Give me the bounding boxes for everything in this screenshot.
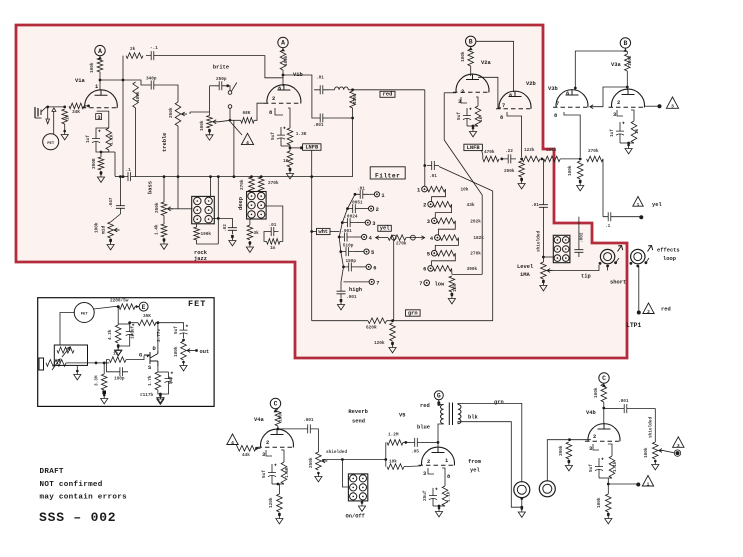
svg-text:Filter: Filter (375, 172, 400, 179)
wire deep loop 2 (264, 232, 267, 242)
wire rock to cap (212, 218, 232, 224)
ground 4.2k (115, 347, 122, 356)
dot V4a gnd (278, 513, 281, 516)
wire lower gang out (66, 362, 96, 364)
resistor 100k slope (133, 82, 139, 108)
node A supply 2 (278, 37, 288, 47)
svg-text:out: out (200, 349, 210, 355)
resistor 1M input (62, 109, 68, 124)
wire resistor to V3a plate (626, 71, 628, 90)
svg-text:120k: 120k (269, 497, 274, 508)
wire volume node drop (233, 120, 235, 176)
label box grn 1 (406, 310, 421, 316)
wire V3a cath join (620, 142, 634, 144)
dot plate node V5 (437, 441, 440, 444)
capacitor 5uF V2a (463, 108, 471, 126)
rail junction (391, 319, 394, 322)
capacitor .01 send (539, 200, 548, 212)
capacitor .22 (503, 154, 516, 163)
cathode bracket V1b (275, 108, 283, 115)
cathode junction V1a (100, 151, 103, 154)
dot above ground V1b (289, 168, 292, 171)
triode V5 (422, 447, 455, 465)
svg-text:V2b: V2b (526, 81, 536, 87)
ground V2a (469, 128, 476, 137)
svg-text:Reverb: Reverb (348, 409, 367, 415)
wire fet supply (114, 306, 119, 308)
wire jack to node (42, 107, 48, 112)
wire C2 down (603, 383, 605, 384)
svg-text:270k: 270k (240, 179, 245, 190)
wire cathode join (96, 150, 109, 152)
ladder inner vertical (481, 195, 483, 274)
svg-text:G: G (139, 353, 142, 359)
svg-text:2: 2 (272, 96, 275, 102)
svg-text:1uf: 1uf (610, 129, 615, 137)
svg-text:blk: blk (468, 415, 478, 421)
fan bus dot 3 (341, 221, 344, 224)
svg-text:3: 3 (677, 443, 680, 449)
svg-text:yel: yel (380, 226, 390, 232)
svg-text:390R: 390R (92, 158, 97, 169)
ground source (157, 396, 164, 405)
wire 270k down (602, 159, 604, 217)
svg-text:270k: 270k (396, 242, 407, 247)
FET input jack (39, 358, 44, 370)
capacitor .05 V5 (410, 438, 422, 447)
switch brite circle 1 (228, 91, 232, 95)
svg-text:34K: 34K (72, 110, 80, 115)
dot 200k (520, 178, 523, 181)
LTP dot (637, 311, 641, 315)
label box yel (378, 225, 392, 231)
bus dot treble (177, 175, 180, 178)
potentiometer 250k reverb (316, 452, 322, 470)
bus dot mid cap (119, 175, 122, 178)
cathode lead V1a (97, 111, 109, 128)
wire .001 join (328, 117, 353, 119)
capacitor 5uF V4a (268, 464, 276, 484)
wire resistor to V4a (277, 426, 279, 430)
ground input 1M (61, 131, 68, 140)
ladder hook 6 (432, 253, 456, 265)
V3a out dot (658, 104, 662, 108)
svg-text:1m: 1m (270, 246, 276, 251)
wire to V4a grid (256, 447, 261, 449)
svg-text:390k: 390k (559, 445, 564, 456)
svg-text:.001: .001 (618, 399, 629, 404)
wire red bus (353, 89, 425, 91)
ground dot 390k (568, 461, 571, 464)
yel pot circle 1 (391, 235, 396, 240)
svg-text:1MA: 1MA (520, 272, 530, 278)
wire wiper to rock box (178, 208, 192, 210)
wire jack1 lug down (607, 266, 609, 271)
ground dot level pot (542, 281, 545, 284)
svg-text:4: 4 (246, 140, 249, 146)
switch rock-jazz (192, 196, 215, 223)
svg-text:-.1: -.1 (150, 46, 158, 51)
wire node to 1M (48, 106, 65, 108)
svg-text:100k: 100k (628, 55, 633, 66)
wire V5 plate up (438, 424, 444, 448)
wire bass pot to 1.4k (163, 216, 165, 225)
svg-text:2: 2 (266, 440, 269, 446)
node C supply (270, 398, 280, 408)
svg-text:1: 1 (95, 84, 98, 90)
wire V3a out (645, 105, 658, 107)
node 1M dot (63, 106, 66, 109)
label box LNFB 2 (464, 144, 483, 150)
wire switch down (229, 108, 231, 120)
wire fb to shielded (542, 159, 544, 200)
ground 390k (565, 462, 572, 471)
svg-text:.1: .1 (605, 224, 611, 229)
svg-text:grn: grn (494, 400, 504, 406)
fan bus dot 4 (338, 236, 341, 239)
wire plate V1b right (283, 75, 312, 90)
wire reverb wiper bus (322, 459, 386, 461)
wire V4a cath down (278, 484, 280, 494)
jack effects return (631, 249, 645, 263)
svg-text:1.2M: 1.2M (388, 433, 399, 438)
dot volume node drop (233, 175, 236, 178)
svg-text:G: G (437, 393, 441, 400)
svg-text:44k: 44k (242, 453, 250, 458)
svg-text:may contain errors: may contain errors (40, 494, 128, 502)
rotary position 6 terminal (428, 266, 434, 272)
wire fet to resistor (94, 307, 114, 309)
ladder hook 4 (438, 221, 455, 235)
svg-text:6: 6 (373, 265, 376, 271)
svg-text:270k: 270k (268, 181, 279, 186)
triangle ref 2 red (643, 303, 654, 314)
ground 12k (448, 295, 455, 304)
svg-text:3.3M: 3.3M (95, 375, 100, 386)
triangle ref 3 top (666, 97, 678, 108)
junction grid V1a (87, 105, 90, 108)
resistor 270k ladder (437, 250, 455, 256)
label box red (380, 91, 395, 97)
svg-text:250k: 250k (309, 457, 314, 468)
svg-text:jazz: jazz (194, 256, 207, 262)
ground arrow input (46, 119, 50, 124)
ground dot V4a (278, 514, 281, 517)
wire cap to terminal 3 (355, 222, 365, 224)
svg-text:8: 8 (269, 110, 272, 116)
resistor 1k V2a (475, 106, 481, 126)
resistor 34K grid stopper (69, 103, 84, 109)
svg-text:.01: .01 (429, 174, 437, 179)
bass bus wire left (115, 176, 123, 178)
svg-text:7: 7 (556, 101, 559, 107)
inductor (335, 87, 349, 90)
svg-text:1: 1 (647, 482, 650, 488)
wire A2 down (282, 47, 284, 50)
dot 120k (391, 342, 394, 345)
svg-text:.001: .001 (313, 123, 324, 128)
wire V4b cath join (599, 477, 612, 479)
highlight region outline (16, 25, 627, 358)
input node dot (46, 106, 49, 109)
dot plate drop bottom (122, 175, 125, 178)
dot 1.2M cap (404, 441, 407, 444)
dot out cap (182, 339, 185, 342)
cathode junction V2a (472, 125, 475, 128)
svg-text:NOT confirmed: NOT confirmed (40, 481, 103, 489)
potentiometer mid wiper (114, 229, 120, 231)
dot bypass cross (217, 217, 220, 220)
svg-text:470k: 470k (353, 93, 358, 104)
svg-text:35K: 35K (143, 314, 151, 319)
ground bass (160, 241, 167, 250)
triangle ref 1 V4b (642, 476, 653, 487)
svg-text:1: 1 (637, 202, 640, 208)
wire plate bus V1a (100, 79, 136, 81)
cathode lead V1b (288, 108, 290, 128)
wire cathode to bus tap (101, 151, 115, 153)
switch deep (247, 192, 267, 220)
triode V1a (85, 90, 118, 108)
yel point dot (639, 215, 643, 219)
plate dot V4a (277, 428, 280, 431)
svg-text:SSS – 002: SSS – 002 (39, 510, 116, 525)
svg-text:1: 1 (417, 187, 420, 193)
node E supply (139, 302, 148, 311)
wire cap to terminal 1 (368, 193, 374, 195)
grid arrow V3b (590, 105, 593, 109)
svg-text:180k: 180k (546, 148, 557, 153)
wire plate jog (136, 80, 145, 85)
svg-text:.02: .02 (223, 224, 228, 232)
wire plate to cap V4b (604, 408, 618, 410)
ground dot 100k shunt (579, 181, 582, 184)
jack1 arrow wire (616, 258, 619, 263)
svg-text:190k: 190k (201, 232, 212, 237)
capacitor 160p (114, 367, 128, 376)
svg-text:1.3K: 1.3K (296, 132, 307, 137)
capacitor .002 loop (574, 245, 583, 257)
triangle ref 1 yel (633, 197, 643, 207)
capacitor .0051 filter (348, 204, 361, 213)
svg-text:.0024: .0024 (344, 215, 358, 220)
svg-text:1: 1 (381, 193, 384, 199)
gang upper arrow (62, 347, 70, 357)
svg-text:A: A (98, 48, 102, 55)
resistor 390k (566, 442, 572, 459)
cathode V3b (564, 112, 580, 157)
ground jack reverb (518, 509, 525, 518)
transistor JFET (144, 352, 158, 366)
wire V5 cath join (433, 505, 445, 507)
ground level pot (540, 282, 547, 291)
svg-text:FET: FET (188, 299, 206, 309)
ground dot jack reverb (521, 507, 524, 510)
svg-text:470k: 470k (484, 150, 495, 155)
svg-text:270k: 270k (470, 252, 481, 257)
ground V1a cathode (97, 174, 104, 183)
wire to V2a plate (470, 66, 472, 76)
LNFB wire pad (300, 146, 303, 149)
wire source join (158, 388, 169, 394)
wire V4b grid stub (588, 439, 591, 441)
svg-text:.0051: .0051 (350, 201, 364, 206)
ground on-off (358, 503, 365, 512)
triode V1b (267, 85, 301, 104)
svg-text:grn: grn (408, 311, 418, 317)
dot wht tap (310, 230, 313, 233)
dot jack reverb gnd (520, 506, 523, 509)
brite node dot (226, 84, 229, 87)
ground dot 12k (451, 294, 454, 297)
wire to 390R (100, 152, 102, 157)
wire cap to pot (316, 429, 318, 452)
capacitor .01 filter top (427, 161, 439, 170)
svg-text:100k: 100k (568, 165, 573, 176)
svg-text:.047: .047 (109, 197, 114, 208)
wire treble bottom to bus (177, 126, 179, 176)
gang lower arrow (52, 359, 60, 370)
jack2 arrow wire (646, 258, 649, 263)
wire .001 branch (312, 90, 315, 118)
svg-text:3k: 3k (254, 231, 260, 236)
svg-text:250k: 250k (169, 107, 174, 118)
wire LNFB down to rail (311, 150, 313, 320)
svg-text:100k: 100k (174, 346, 179, 357)
svg-text:2: 2 (461, 89, 464, 95)
wire treble wiper up (189, 112, 191, 114)
svg-text:6: 6 (509, 93, 512, 99)
dot bypass bus (217, 175, 220, 178)
svg-text:C: C (602, 375, 606, 382)
ground gang box (74, 371, 81, 380)
svg-text:.001: .001 (303, 418, 314, 423)
jack1 lug 2 (606, 265, 609, 268)
resistor 3.3M (101, 374, 107, 390)
jack2 lug 2 (636, 265, 639, 268)
svg-text:5uf: 5uf (271, 132, 276, 140)
ground V1b cathode (286, 170, 293, 179)
dot V4b gnd (607, 513, 610, 516)
capacitor .01 coupling V1b (314, 85, 329, 94)
svg-text:2k: 2k (130, 47, 136, 52)
resistor 122k (522, 156, 540, 162)
potentiometer mid (108, 222, 114, 238)
svg-text:LNFB: LNFB (467, 145, 481, 151)
svg-text:200k: 200k (504, 169, 515, 174)
resistor 1k gate (109, 357, 126, 363)
svg-text:3: 3 (671, 104, 674, 110)
potentiometer 100k V4b out (653, 442, 659, 459)
wire plate V4a right (278, 428, 302, 430)
wire V4b cath down (607, 478, 609, 494)
ground dot .02 cap (231, 236, 234, 239)
svg-text:B: B (469, 39, 473, 46)
wire to V1a grid (84, 105, 88, 107)
junction plate V1a (99, 79, 102, 82)
dot out (195, 349, 198, 352)
wire gang gnd (76, 365, 78, 371)
ground dot rail (391, 343, 394, 346)
ground dot out pot (182, 361, 185, 364)
cathode bracket V3a (617, 110, 623, 116)
ground V4b (605, 515, 612, 524)
dot reverb bus join (384, 458, 387, 461)
ground reverb pot (315, 473, 322, 482)
dot fet supply (117, 305, 120, 308)
wire V3a plate to V3b grid (590, 87, 627, 107)
svg-text:3: 3 (423, 471, 426, 477)
jack effects send (600, 249, 614, 263)
cathode junction V1b (289, 147, 292, 150)
svg-text:5: 5 (371, 250, 374, 256)
wire V2a grid left (444, 92, 456, 94)
jack2 lug 3 (645, 261, 648, 264)
svg-text:effects: effects (657, 248, 680, 254)
svg-text:1M: 1M (66, 114, 71, 120)
svg-text:1k: 1k (635, 128, 640, 134)
resistor gang upper (57, 347, 74, 353)
svg-text:V5: V5 (399, 413, 405, 419)
potentiometer treble 250k (175, 102, 181, 126)
ground volume pot (206, 131, 213, 140)
ground 3.3M (101, 395, 108, 404)
wire gate node (126, 356, 144, 360)
potentiometer out 100k wiper (187, 350, 193, 352)
capacitor .0024 filter (342, 218, 355, 227)
wire cap to plate node (422, 441, 438, 443)
pin 3 box V1a (96, 114, 102, 120)
bass bus wire (136, 176, 353, 178)
potentiometer bass 250k wiper (168, 208, 174, 210)
ladder inner rail (452, 273, 482, 275)
svg-text:100k: 100k (90, 62, 95, 73)
capacitor 250p brite (215, 81, 226, 90)
dot 12k (451, 293, 454, 296)
capacitor bus inline (123, 172, 136, 181)
wire cap to terminal 2 (361, 208, 369, 210)
wire treble drop below bus (177, 177, 179, 209)
wire to volume pot (209, 86, 211, 116)
ground dot bass (163, 239, 166, 242)
ladder r6 hook to rail (451, 268, 453, 274)
svg-text:loop: loop (663, 256, 676, 262)
wire onoff gnd (361, 501, 363, 503)
svg-text:100uf: 100uf (131, 325, 136, 339)
svg-text:2: 2 (427, 459, 430, 465)
fb dot 1 (500, 158, 503, 161)
dot V4a grid (255, 447, 258, 450)
wire V2a cath join (467, 125, 478, 127)
wire cap to terminal 4 (352, 236, 361, 238)
wire 470k down (352, 108, 354, 118)
ground dot high cap (340, 300, 343, 303)
svg-text:V4b: V4b (586, 410, 596, 416)
filter bottom rail right (387, 320, 493, 322)
wire wht to enclosure (312, 231, 317, 233)
wire 180k to junction (560, 158, 580, 160)
svg-text:8: 8 (554, 113, 557, 119)
fan bus dot 2 (346, 207, 349, 210)
ground V4a (276, 515, 283, 524)
svg-text:FET: FET (47, 142, 55, 146)
svg-text:shielded: shielded (326, 450, 347, 455)
svg-text:mid: mid (101, 225, 107, 234)
triangle ref 4 (241, 133, 253, 144)
wire cathode cap top (96, 128, 109, 130)
svg-text:1k: 1k (479, 116, 484, 122)
bus dot bass (163, 175, 166, 178)
